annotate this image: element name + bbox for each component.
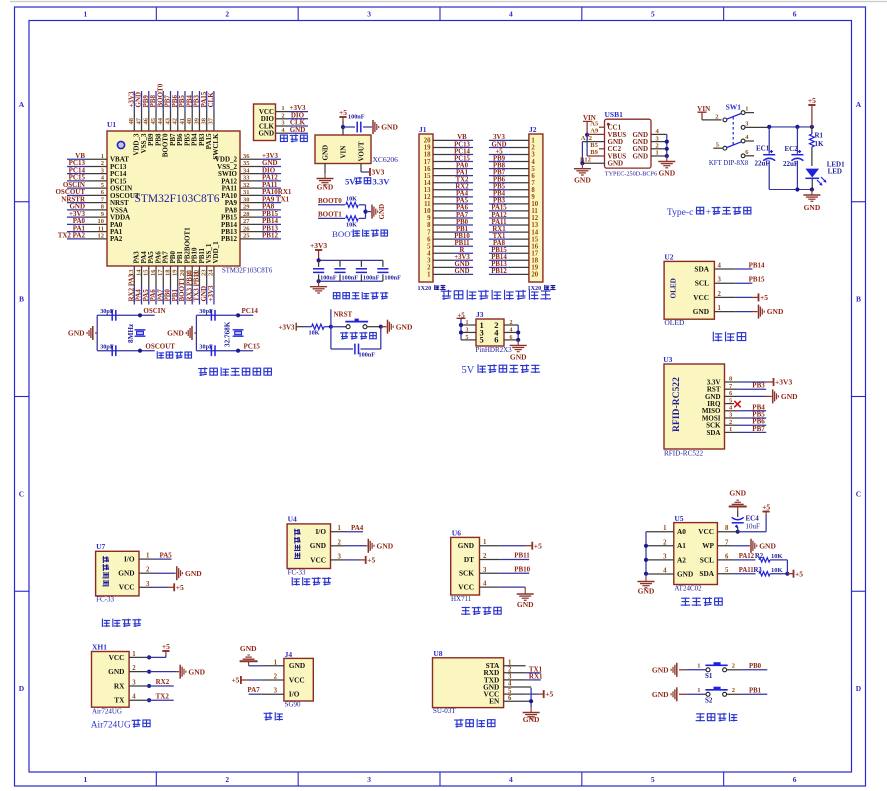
svg-text:A0: A0: [677, 527, 686, 536]
svg-text:U6: U6: [452, 529, 461, 538]
svg-text:SWCLK: SWCLK: [212, 133, 220, 160]
wire +5 to VIN: [341, 121, 345, 135]
net label OSCIN: [143, 307, 165, 315]
svg-text:2: 2: [656, 143, 659, 150]
SW1 pin4 stub: [745, 140, 754, 142]
USB1 pin A12 wire: [581, 135, 605, 142]
svg-text:100nF: 100nF: [384, 275, 401, 282]
svg-text:10K: 10K: [346, 222, 357, 229]
title display: [713, 332, 745, 342]
J4 pin 2 VCC: [232, 674, 305, 685]
svg-text:47: 47: [135, 117, 142, 124]
J1 pin 20 net VB: [424, 134, 473, 144]
svg-text:3: 3: [718, 277, 722, 284]
svg-text:OSCIN: OSCIN: [143, 307, 165, 315]
svg-text:1: 1: [697, 663, 700, 670]
svg-text:2: 2: [663, 539, 667, 546]
U1 pin 12 PA2 / net TX2 PA2: [58, 232, 123, 244]
crystal 8MHz xtal: [135, 330, 146, 336]
svg-text:43: 43: [164, 117, 171, 124]
ground filter bank: [310, 281, 327, 293]
svg-text:USB1: USB1: [605, 110, 624, 119]
svg-text:PA1: PA1: [456, 169, 469, 176]
svg-text:100nF: 100nF: [348, 114, 365, 121]
USB1 pin B12 GND name: [608, 160, 624, 168]
U5 pin 2 A1: [646, 539, 686, 550]
svg-text:GND: GND: [454, 268, 469, 275]
svg-text:10K: 10K: [308, 330, 319, 337]
svg-text:SDA: SDA: [699, 569, 714, 578]
U5 pin 4 GND: [646, 568, 693, 579]
svg-text:5: 5: [651, 10, 655, 19]
download header pin 1 VCC / net +3V3: [259, 104, 308, 116]
J1 pin 14 net TX2: [424, 177, 473, 187]
net label OSCOUT: [145, 342, 175, 350]
J1 pin 1 net GND: [427, 268, 473, 278]
svg-text:10K: 10K: [771, 567, 783, 574]
U1 pin 31 PA10 / net PA10RX1: [221, 188, 292, 200]
title Air724UG module: [91, 719, 150, 730]
title buttons: [696, 713, 738, 722]
svg-text:PB15: PB15: [749, 276, 765, 284]
svg-text:1K: 1K: [815, 140, 825, 148]
wire button to gnd: [367, 325, 387, 329]
svg-text:44: 44: [157, 117, 164, 124]
svg-text:5: 5: [427, 243, 431, 250]
U4 pin 1 I/O: [315, 524, 363, 536]
net label PC14: [242, 307, 259, 315]
svg-text:+5: +5: [795, 569, 803, 578]
32k xtal bottom rail: [196, 349, 253, 353]
svg-text:18: 18: [164, 269, 171, 276]
wire +3V3 to R6: [296, 326, 304, 328]
svg-text:41: 41: [179, 118, 186, 125]
J1 pin 10 net PA6: [424, 205, 473, 215]
U1 pin 47 VSS_3 / net GND: [135, 91, 148, 153]
svg-text:VDD_1: VDD_1: [212, 241, 220, 264]
svg-text:100nF: 100nF: [359, 352, 376, 359]
svg-text:GND: GND: [759, 541, 776, 550]
U1 pin 45 PB8 / net PB8: [149, 91, 162, 146]
ground servo: [240, 644, 258, 666]
svg-text:30pF: 30pF: [199, 343, 213, 350]
resistor R1 1K: [810, 127, 825, 166]
USB1 pin B9 wire: [587, 149, 604, 156]
svg-text:+5: +5: [495, 148, 503, 155]
U1 pin 11 PA1 / net PA1: [67, 224, 123, 236]
svg-text:1: 1: [427, 272, 431, 279]
svg-text:+5: +5: [760, 293, 768, 302]
svg-text:GND: GND: [317, 183, 334, 192]
J1 pin 19 net PC13: [424, 141, 473, 151]
J2 pin 19 net PB13: [489, 261, 539, 271]
svg-text:5: 5: [480, 335, 484, 345]
svg-text:14: 14: [531, 229, 538, 236]
filter bank bottom rail: [317, 279, 383, 283]
ground U5: [638, 574, 655, 596]
U1 pin 29 PA8 / net PA8: [225, 203, 281, 215]
svg-text:TX: TX: [114, 696, 125, 705]
svg-text:PC13: PC13: [454, 141, 470, 148]
U1 pin 34 SWIO / net DIO: [218, 166, 281, 178]
svg-text:J1: J1: [419, 125, 427, 134]
svg-text:2: 2: [225, 10, 229, 19]
svg-text:2: 2: [715, 113, 718, 120]
svg-text:A: A: [856, 100, 862, 109]
svg-text:TX2 PA2: TX2 PA2: [58, 232, 86, 240]
capacitor 30pF top 32k xtal: [199, 308, 215, 321]
filter bank top rail: [317, 254, 383, 263]
svg-text:17: 17: [531, 250, 538, 257]
U7 pin 1 I/O: [124, 551, 172, 563]
svg-text:Type-c: Type-c: [667, 207, 694, 218]
ground reset: [388, 320, 413, 334]
title reset circuit: [340, 332, 376, 340]
svg-text:32.768K: 32.768K: [224, 321, 232, 347]
svg-text:VCC: VCC: [693, 293, 709, 302]
svg-text:PB12: PB12: [262, 232, 278, 240]
svg-text:1: 1: [338, 525, 342, 532]
svg-text:4: 4: [510, 327, 513, 333]
svg-text:39: 39: [193, 117, 200, 124]
U1 pin 19 PB1 / net PB1: [171, 251, 184, 305]
svg-text:VCC: VCC: [119, 583, 135, 592]
svg-text:GND: GND: [781, 392, 798, 401]
J1 pin 3 net +3V3: [427, 254, 473, 264]
U1 pin 14 PA4 / net PA4: [135, 251, 148, 305]
download header pin 2 DIO / net DIO: [261, 111, 308, 123]
svg-text:2: 2: [274, 674, 278, 681]
svg-text:PA11: PA11: [492, 219, 508, 226]
svg-text:A: A: [19, 100, 25, 109]
svg-text:40: 40: [186, 118, 193, 125]
J2 pin 7 net PB6: [489, 177, 536, 187]
svg-text:+3V3: +3V3: [454, 254, 470, 261]
J2 pin 3 net +5: [489, 148, 536, 158]
resistor 10K BOOT0: [346, 196, 359, 208]
J1 pin 16 net PA0: [424, 162, 473, 172]
USB1 pin A9 wire: [587, 128, 604, 135]
svg-text:AT24C02: AT24C02: [674, 585, 702, 593]
J4 pin 1 GND: [249, 659, 306, 670]
label 8MHz: [127, 323, 135, 343]
svg-text:2: 2: [101, 160, 104, 167]
capacitor 100nF filter C2: [334, 260, 358, 281]
svg-text:+3V3: +3V3: [279, 323, 296, 331]
svg-text:PC14: PC14: [242, 307, 259, 315]
svg-text:I/O: I/O: [289, 690, 300, 699]
svg-text:4: 4: [509, 10, 513, 19]
capacitor EC4 10uF: [732, 511, 760, 532]
svg-text:VCC: VCC: [698, 527, 714, 536]
svg-text:5: 5: [531, 166, 535, 173]
svg-text:12: 12: [424, 194, 431, 201]
title typec power: [667, 206, 751, 217]
svg-text:SU-03T: SU-03T: [433, 707, 456, 715]
svg-text:9: 9: [531, 194, 535, 201]
title MCU minimum system: [198, 367, 271, 376]
U5 left bus: [644, 532, 648, 576]
svg-text:10K: 10K: [346, 196, 357, 203]
ground at BOOT node: [372, 204, 386, 220]
svg-text:3: 3: [663, 553, 667, 560]
J3 pin 3: [461, 327, 484, 337]
svg-text:EC4: EC4: [746, 515, 760, 523]
capacitor 100nF at XC6206: [348, 114, 365, 133]
svg-text:4: 4: [483, 581, 487, 588]
ground USB1 left: [574, 163, 591, 184]
svg-text:RX2: RX2: [156, 678, 170, 686]
wire S2 to net PB1: [727, 687, 768, 694]
capacitor 100nF reset: [355, 344, 375, 359]
svg-text:U4: U4: [288, 515, 297, 524]
J1 pin 18 net PC14: [424, 148, 473, 158]
svg-text:5: 5: [651, 775, 655, 784]
crystal 32k xtal: [233, 330, 244, 336]
svg-text:1: 1: [663, 525, 667, 532]
svg-text:PB7: PB7: [493, 169, 506, 176]
svg-text:PA11: PA11: [739, 567, 755, 574]
svg-text:10: 10: [98, 218, 105, 225]
svg-text:FC-33: FC-33: [288, 568, 306, 576]
net label PC15: [244, 342, 261, 350]
svg-text:TX1: TX1: [493, 233, 506, 240]
svg-text:RFID-RC522: RFID-RC522: [671, 377, 682, 432]
SW1 pin5 stub: [713, 147, 723, 149]
svg-text:2: 2: [531, 145, 535, 152]
svg-text:TYPEC-250D-BCP6: TYPEC-250D-BCP6: [605, 171, 657, 178]
svg-text:15: 15: [143, 269, 150, 276]
U1 pin 13 PA3 / net RX2 PA3: [128, 251, 141, 305]
svg-text:2: 2: [718, 291, 722, 298]
svg-text:16: 16: [531, 243, 538, 250]
svg-text:GND: GND: [652, 665, 669, 674]
svg-text:GND: GND: [658, 169, 675, 178]
svg-text:1: 1: [281, 105, 284, 112]
LED1: [805, 161, 845, 190]
USB1 pin B9 VBUS name: [608, 152, 627, 160]
svg-text:+5: +5: [545, 690, 553, 699]
J1 pin 9 net PA7: [427, 212, 473, 222]
svg-text:4: 4: [508, 681, 512, 688]
svg-text:10uF: 10uF: [746, 523, 761, 531]
U3 pin 5 IRQ: [707, 397, 740, 408]
svg-text:4: 4: [132, 694, 136, 701]
U8 pin 6 EN: [489, 695, 531, 706]
power +3V3 filter bank: [310, 241, 327, 254]
power +5 pullups: [794, 569, 804, 578]
USB1 right pin 3 GND: [632, 135, 666, 146]
svg-text:PB11: PB11: [514, 552, 530, 560]
svg-text:BOOT1: BOOT1: [318, 211, 342, 219]
power +5 J3: [457, 311, 466, 319]
U1 pin 1 VBAT / net VB: [67, 152, 129, 164]
svg-text:7: 7: [427, 229, 431, 236]
capacitor 30pF top 8MHz xtal: [100, 308, 116, 321]
svg-text:1: 1: [483, 539, 487, 546]
U1 pin 46 PB9 / net PB9: [142, 91, 155, 146]
svg-text:GND: GND: [68, 329, 85, 338]
net +3V3 reset: [279, 323, 297, 332]
svg-text:22uF: 22uF: [783, 160, 798, 168]
U8 pin 4 GND: [483, 681, 531, 692]
svg-text:SDA: SDA: [694, 264, 709, 273]
svg-text:5: 5: [466, 335, 469, 341]
svg-text:10: 10: [424, 208, 431, 215]
svg-text:VCC: VCC: [458, 583, 474, 592]
power +5 at XC6206: [339, 108, 347, 121]
svg-text:B9: B9: [590, 149, 598, 156]
svg-text:+: +: [706, 207, 711, 218]
svg-text:STM32F103C8T6: STM32F103C8T6: [135, 193, 220, 205]
svg-text:CLK: CLK: [207, 92, 215, 108]
svg-text:LED: LED: [828, 168, 842, 176]
U8 gnd bus: [529, 688, 533, 707]
svg-text:GND: GND: [458, 541, 474, 550]
U3 pin 6 GND: [705, 389, 798, 403]
svg-text:NRST: NRST: [334, 311, 353, 319]
svg-text:12: 12: [98, 233, 105, 240]
svg-text:GND: GND: [517, 600, 534, 609]
svg-text:2: 2: [281, 112, 284, 119]
svg-text:RX2: RX2: [455, 184, 469, 191]
svg-text:U3: U3: [663, 355, 672, 364]
svg-text:3: 3: [274, 688, 278, 695]
svg-text:13: 13: [531, 222, 538, 229]
ground below XC6206: [317, 173, 334, 192]
svg-text:100nF: 100nF: [320, 275, 337, 282]
svg-text:18: 18: [424, 152, 431, 159]
svg-text:WP: WP: [702, 541, 714, 550]
title eeprom: [681, 597, 723, 606]
svg-text:24: 24: [208, 269, 215, 276]
svg-text:U5: U5: [674, 514, 683, 523]
8MHz xtal bottom rail: [97, 349, 155, 353]
wire SW1 pin3 to rail: [745, 126, 769, 128]
U1 pin 15 PA5 / net PA5: [142, 251, 155, 305]
voice U8 body: [433, 649, 504, 715]
svg-text:GND: GND: [118, 569, 134, 578]
svg-text:PA12: PA12: [491, 212, 507, 219]
svg-text:13: 13: [424, 187, 431, 194]
XC6206 pin name GND: [322, 145, 330, 161]
svg-text:C: C: [856, 489, 861, 498]
svg-text:PA8: PA8: [493, 240, 506, 247]
U3 pin 4 MISO: [702, 403, 766, 415]
svg-text:4: 4: [427, 250, 431, 257]
USB1 right bus: [665, 134, 669, 158]
svg-text:2: 2: [729, 419, 732, 426]
U5 pin 1 A0: [646, 525, 686, 536]
svg-text:8: 8: [427, 222, 431, 229]
U1 pin 3 PC14 / net PC14: [67, 166, 127, 178]
svg-text:22: 22: [193, 270, 200, 277]
svg-text:10: 10: [531, 201, 538, 208]
svg-text:3: 3: [508, 674, 512, 681]
svg-text:12: 12: [531, 215, 538, 222]
title crystal circuit: [157, 351, 191, 359]
svg-text:B5: B5: [590, 142, 598, 149]
svg-text:19: 19: [172, 269, 179, 276]
wire R5 to node: [359, 217, 366, 219]
svg-text:J4: J4: [285, 650, 293, 659]
U1 pin 32 PA11 / net PA11: [222, 181, 281, 193]
XC6206 pin name VOUT: [358, 141, 366, 161]
IR module U4 body: [287, 515, 330, 577]
ground right of cap: [373, 120, 398, 134]
svg-text:OSCOUT: OSCOUT: [145, 342, 175, 350]
USB1 pin B12 wire: [580, 156, 605, 163]
svg-text:3V3: 3V3: [493, 134, 505, 141]
USB1 pin A5 CC1 name: [608, 124, 622, 132]
wire VCC to +5: [738, 516, 766, 532]
svg-text:+5: +5: [232, 676, 240, 684]
J2 pin 20 net PB12: [489, 268, 539, 278]
XC6206 VOUT wire: [361, 164, 370, 173]
svg-text:R1: R1: [815, 132, 824, 140]
svg-text:EC2: EC2: [785, 145, 799, 153]
svg-text:25: 25: [243, 233, 250, 240]
U1 pin 5 OSCIN / net OSCIN: [63, 181, 132, 193]
svg-text:R: R: [460, 247, 465, 254]
J3 pin 1: [461, 320, 484, 330]
svg-text:6: 6: [725, 553, 729, 560]
U1 pin 43 PB7 / net PB7: [164, 91, 177, 146]
svg-text:J3: J3: [476, 310, 484, 319]
regulator U9 XC6206 body: [315, 135, 371, 164]
svg-text:PA4: PA4: [456, 191, 469, 198]
svg-text:17: 17: [157, 269, 164, 276]
wire gnd to S1: [679, 669, 706, 671]
svg-text:8: 8: [531, 187, 535, 194]
svg-text:PB3: PB3: [493, 198, 506, 205]
svg-text:23: 23: [201, 269, 208, 276]
svg-text:6: 6: [793, 775, 797, 784]
svg-text:38: 38: [201, 117, 208, 124]
svg-text:4: 4: [718, 263, 722, 270]
U1 pin 28 PB15 / net PB15: [221, 210, 281, 222]
svg-text:PB1: PB1: [456, 226, 469, 233]
download header body: [254, 104, 276, 141]
svg-text:31: 31: [243, 189, 250, 196]
svg-text:2: 2: [132, 665, 136, 672]
J1 pin 13 net RX2: [424, 184, 473, 194]
svg-text:5: 5: [508, 688, 512, 695]
svg-text:DT: DT: [464, 555, 474, 564]
svg-text:+5: +5: [367, 556, 375, 565]
svg-text:GND: GND: [377, 541, 394, 550]
ground U6: [517, 589, 534, 610]
U1 pin 9 VDDA / net +3V3: [67, 210, 130, 222]
J3 left bus: [459, 318, 463, 340]
U1 pin 39 PB3 / net PB3: [193, 91, 206, 146]
svg-text:5: 5: [725, 567, 729, 574]
svg-text:RX: RX: [114, 681, 125, 690]
U1 pin 37 SWCLK / net CLK: [207, 91, 220, 160]
svg-text:35: 35: [243, 160, 250, 167]
svg-text:FC-33: FC-33: [96, 596, 114, 604]
U8 pin 5 VCC: [483, 688, 553, 699]
J1 pin 8 net PB0: [427, 219, 473, 229]
svg-text:J2: J2: [529, 125, 537, 134]
U3 pin 8 3.3V: [707, 376, 793, 387]
svg-text:+3V3: +3V3: [310, 241, 327, 250]
U1 pin 44 BOOT0 / net BOOT0: [156, 83, 169, 157]
U1 pin 48 VDD_3 / net +3V3: [128, 91, 141, 156]
U1 pin 38 PA15 / net PA15: [200, 91, 213, 149]
U1 pin 42 PB6 / net PB6: [171, 91, 184, 146]
wire BOOT1 to R5: [339, 217, 345, 219]
